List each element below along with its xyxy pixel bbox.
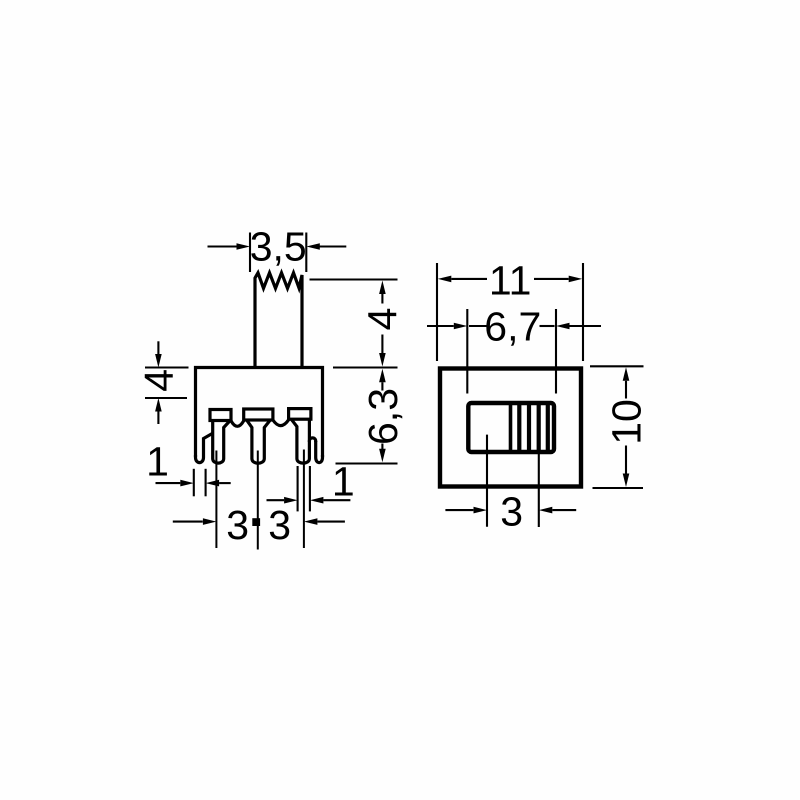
dimension 6,3 (body height, right side) bbox=[336, 382, 398, 463]
svg-text:11: 11 bbox=[489, 258, 532, 304]
dimension 1 (left leg width) bbox=[156, 469, 231, 497]
slider slot bbox=[468, 403, 554, 452]
svg-text:1: 1 bbox=[146, 439, 169, 485]
svg-text:6,3: 6,3 bbox=[360, 388, 406, 445]
actuator lever with break zigzag top bbox=[255, 273, 302, 368]
pin 1 cap (terminal head) bbox=[210, 410, 231, 421]
right mounting leg with rounded tip bbox=[316, 441, 323, 463]
svg-text:10: 10 bbox=[604, 399, 650, 445]
svg-text:6,7: 6,7 bbox=[484, 304, 541, 350]
body web curve between pin 2 and pin 3 bbox=[273, 420, 289, 426]
svg-text:4: 4 bbox=[136, 369, 182, 392]
pin 2 centerline bbox=[257, 451, 259, 550]
pin 2 stem with rounded tip bbox=[247, 420, 271, 463]
pin 2 cap (terminal head) bbox=[244, 409, 273, 420]
dimension 3,5 (actuator width) bbox=[208, 233, 347, 273]
separator dot between the two 3 labels bbox=[252, 518, 260, 526]
dimension 11 (body width) bbox=[437, 263, 583, 361]
pin 3 stem with rounded tip bbox=[291, 419, 309, 463]
pin 1 centerline bbox=[215, 451, 217, 549]
pin 3 centerline bbox=[303, 450, 305, 549]
svg-text:3: 3 bbox=[500, 488, 523, 534]
body web curve between pin 1 and pin 2 bbox=[231, 421, 244, 427]
switch body top and side walls bbox=[196, 368, 323, 458]
dimension 10 (body height) bbox=[590, 366, 644, 488]
pin 3 cap (terminal head) bbox=[289, 409, 311, 420]
left mounting leg with rounded tip and web to pin 1 bbox=[196, 433, 213, 462]
dimension 4 (left side) bbox=[145, 341, 189, 424]
svg-text:3,5: 3,5 bbox=[250, 224, 307, 270]
switch body front face bbox=[440, 369, 581, 487]
dimension 1 (pin 3 width, right side) bbox=[267, 466, 351, 511]
body web arch between pin 3 and right leg bbox=[309, 438, 315, 442]
svg-text:3: 3 bbox=[268, 502, 291, 548]
svg-text:4: 4 bbox=[359, 308, 405, 331]
dimension 4 (actuator height, right side) bbox=[310, 280, 398, 368]
pin 1 stem with rounded tip bbox=[213, 421, 230, 464]
knob left edge bbox=[509, 403, 513, 452]
dimension 3 (knob width) bbox=[445, 435, 576, 527]
svg-text:3: 3 bbox=[226, 502, 249, 548]
knob serration ribs bbox=[519, 403, 548, 452]
svg-text:1: 1 bbox=[332, 459, 355, 505]
dimension 3 . 3 (pin pitch) bbox=[173, 521, 345, 523]
dimension 6,7 (slot width) bbox=[427, 309, 601, 394]
